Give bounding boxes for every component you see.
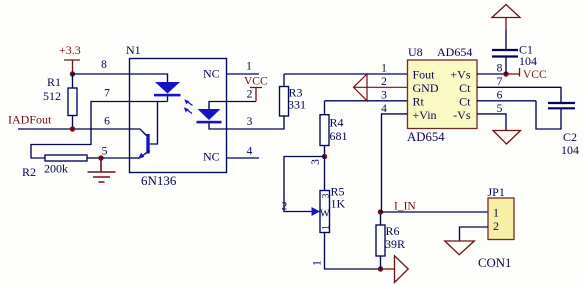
svg-text:104: 104: [519, 54, 537, 68]
svg-text:Ct: Ct: [459, 81, 471, 95]
wire Fout net: [284, 73, 408, 75]
svg-text:4: 4: [247, 146, 253, 158]
svg-text:8: 8: [497, 63, 503, 75]
svg-text:1K: 1K: [331, 197, 346, 211]
wire Ct pin7: [477, 87, 561, 103]
capacitor C1: [492, 30, 537, 74]
wire pin7 inside opto: [130, 101, 168, 103]
svg-text:JP1: JP1: [488, 185, 505, 199]
resistor R6: [376, 212, 405, 269]
diode LED1 (emitter): [130, 74, 181, 102]
wire pin8 net: [73, 73, 130, 75]
svg-text:3: 3: [381, 90, 387, 102]
pin label 3 (pot): [310, 159, 322, 165]
wire pin5: [101, 157, 130, 159]
svg-text:VCC: VCC: [244, 76, 268, 88]
wire pin3 to R3: [227, 116, 285, 129]
net label I_IN: [394, 201, 416, 213]
svg-text:200k: 200k: [44, 162, 68, 176]
wire pin4 NC stub: [227, 157, 260, 159]
svg-text:3: 3: [310, 159, 322, 165]
svg-text:6: 6: [104, 116, 110, 128]
svg-text:R1: R1: [47, 75, 61, 89]
svg-text:1: 1: [493, 206, 499, 220]
svg-text:+Vs: +Vs: [450, 68, 470, 82]
connector JP1: [478, 185, 514, 270]
svg-text:+3.3: +3.3: [59, 43, 81, 57]
svg-text:Fout: Fout: [413, 68, 436, 82]
node: junction R4/R5: [322, 154, 327, 159]
power arrow left (AD654 GND): [354, 74, 408, 101]
wire pot bottom to R6 bottom: [325, 233, 381, 270]
diode LED2 (detector): [197, 102, 227, 130]
svg-text:W: W: [320, 209, 330, 220]
svg-text:4: 4: [381, 103, 387, 115]
svg-text:2: 2: [247, 89, 253, 101]
resistor R4: [320, 101, 348, 157]
svg-text:NC: NC: [203, 150, 220, 164]
wire pot top lead: [324, 157, 326, 191]
svg-text:GND: GND: [413, 81, 439, 95]
svg-text:2: 2: [493, 219, 499, 233]
svg-text:VCC: VCC: [523, 69, 547, 81]
svg-text:U8: U8: [408, 45, 423, 59]
net label VCC (right): [506, 68, 547, 81]
svg-text:331: 331: [288, 98, 306, 112]
wire pin2 stub: [227, 101, 257, 103]
svg-text:CON1: CON1: [478, 256, 511, 270]
wire -Vs pin5: [477, 114, 506, 131]
node: junction C1/pin8: [503, 71, 508, 76]
wire pin1 NC stub: [227, 73, 260, 75]
svg-text:Rt: Rt: [413, 95, 425, 109]
power arrow right (R6 bottom): [381, 256, 409, 283]
transistor (photo): [130, 102, 158, 160]
svg-text:2: 2: [282, 201, 288, 213]
power arrow down (CON1): [445, 241, 475, 255]
resistor R2: [22, 155, 101, 179]
svg-text:Ct: Ct: [459, 95, 471, 109]
svg-text:6N136: 6N136: [141, 173, 177, 188]
svg-text:681: 681: [330, 129, 348, 143]
svg-text:512: 512: [43, 89, 61, 103]
svg-text:8: 8: [101, 59, 107, 71]
net label IADFout: [8, 113, 52, 127]
ground: [88, 158, 116, 182]
svg-text:5: 5: [497, 103, 503, 115]
wire +Vs pin8: [477, 73, 506, 75]
svg-text:AD654: AD654: [437, 45, 472, 59]
power arrow down (-Vs): [493, 131, 521, 145]
capacitor C2: [536, 101, 579, 157]
svg-text:104: 104: [561, 143, 579, 157]
wire pot pin2 path: [284, 157, 325, 212]
pin label 2 (pot): [282, 201, 288, 213]
resistor R3: [280, 74, 307, 116]
svg-text:1: 1: [246, 61, 252, 73]
svg-text:1: 1: [320, 225, 331, 230]
svg-text:R2: R2: [22, 165, 36, 179]
node: junction R2/pin5/ground: [98, 155, 103, 160]
svg-text:AD654: AD654: [407, 130, 445, 144]
svg-text:I_IN: I_IN: [394, 201, 416, 213]
wire JP1 pin2: [460, 227, 489, 241]
node: junction I_IN: [378, 209, 383, 214]
power VCC (opto pin2): [244, 76, 268, 102]
wire AD654 pin4: [382, 114, 408, 212]
svg-text:N1: N1: [126, 43, 141, 57]
svg-text:3: 3: [320, 193, 331, 198]
light arrows: [184, 99, 193, 113]
wire IADFout net: [18, 128, 130, 130]
svg-text:NC: NC: [203, 67, 220, 81]
potentiometer R5: [312, 185, 346, 233]
node: junction R6 bottom: [378, 266, 383, 271]
svg-text:C2: C2: [563, 130, 577, 144]
svg-text:1: 1: [312, 260, 324, 266]
svg-text:R4: R4: [330, 116, 344, 130]
svg-text:1: 1: [381, 63, 387, 75]
wire Rt net: [325, 100, 408, 102]
svg-text:3: 3: [247, 116, 253, 128]
power +3.3: [59, 43, 81, 74]
wire Ct pin6: [477, 100, 536, 102]
node: junction +3.3/R1/pin8: [70, 71, 75, 76]
wire I_IN net: [381, 211, 489, 213]
resistor R1: [43, 74, 77, 129]
node: junction IADFout/R1: [70, 126, 75, 131]
svg-text:-Vs: -Vs: [453, 108, 471, 122]
svg-text:+Vin: +Vin: [413, 108, 437, 122]
svg-text:2: 2: [381, 76, 387, 88]
wire pin7 to R2: [31, 102, 130, 159]
svg-text:IADFout: IADFout: [8, 113, 52, 127]
power arrow up (VCC top): [492, 5, 520, 31]
svg-text:R6: R6: [386, 224, 400, 238]
svg-text:7: 7: [497, 76, 503, 88]
svg-text:39R: 39R: [385, 237, 405, 251]
pin label 1 (pot): [312, 260, 324, 266]
svg-text:6: 6: [497, 90, 503, 102]
svg-text:7: 7: [104, 88, 110, 100]
IC U8 AD654: [381, 45, 503, 144]
svg-text:5: 5: [102, 146, 108, 158]
optocoupler N1 6N136: [101, 43, 253, 188]
